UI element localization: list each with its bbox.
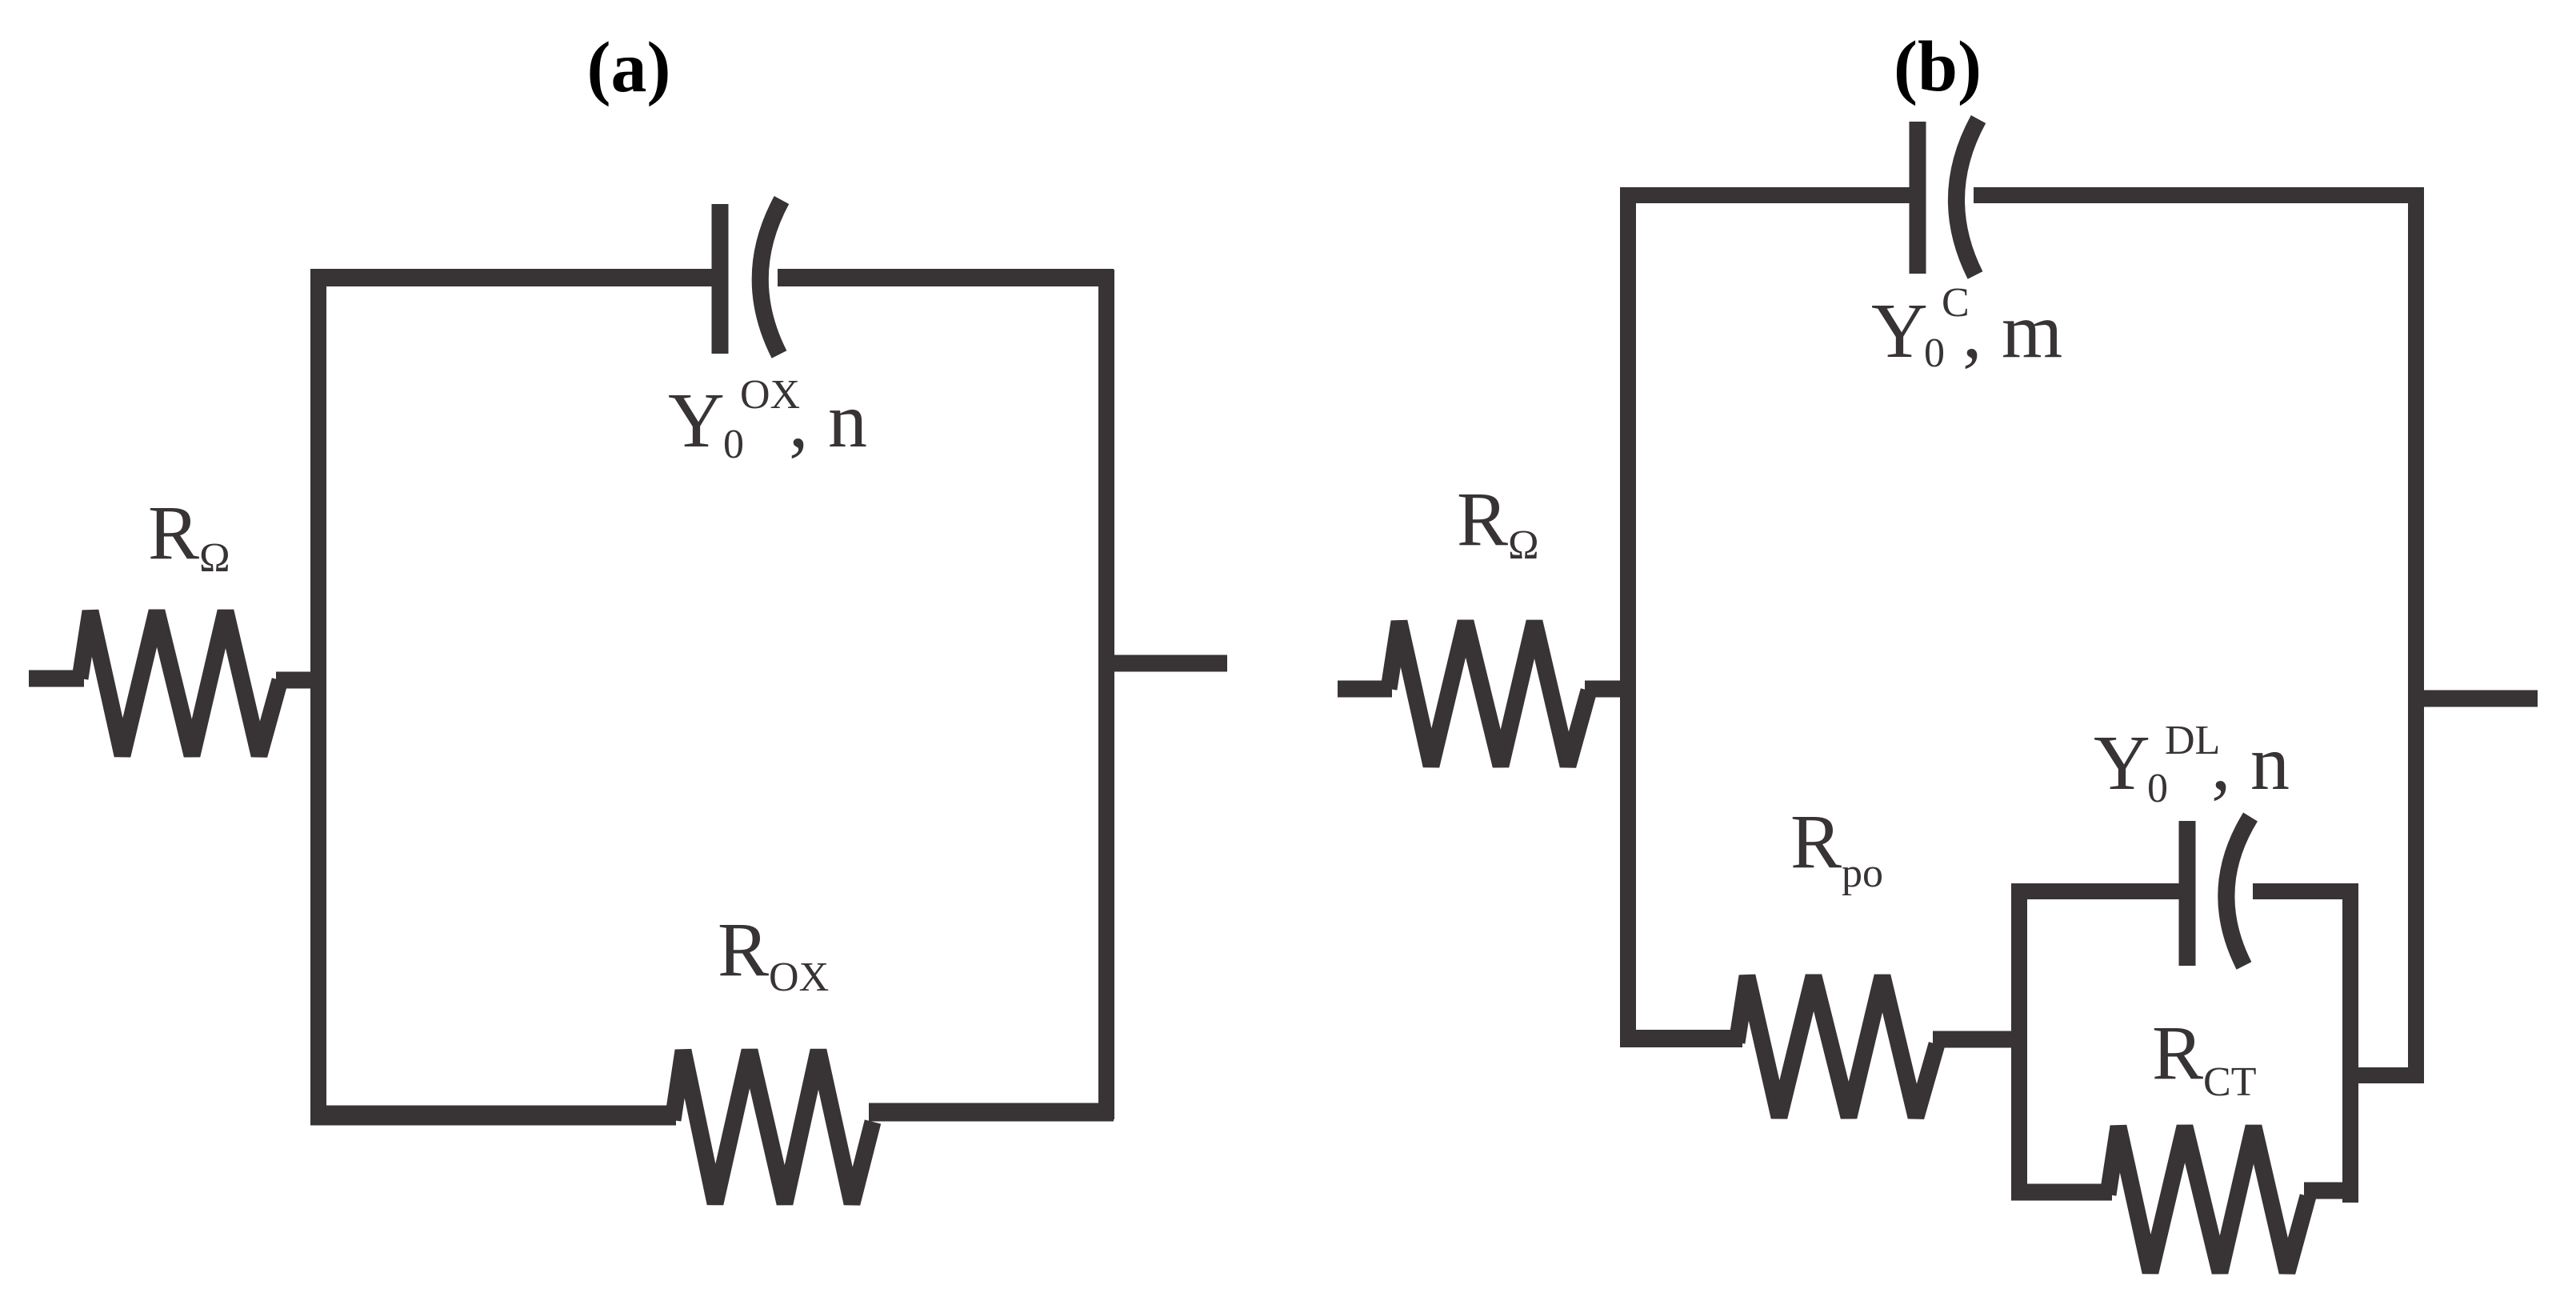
wire: top wire left segment (b) <box>1620 187 1910 203</box>
svg-text:, n: , n <box>789 378 867 464</box>
wire: sub-loop bottom wire left segment <box>2011 1184 2112 1201</box>
wire: sub-loop right rail <box>2342 884 2358 1203</box>
wire: input lead of circuit (b) <box>1338 681 1392 698</box>
wire: bottom wire of loop (b) <box>1620 1030 1742 1047</box>
wire: ROX to right rail (a) <box>869 1103 1114 1122</box>
resistor R&#937; (b) zigzag <box>1389 622 1589 766</box>
svg-text:0: 0 <box>723 422 744 467</box>
capacitor CPE Y0OX left plate <box>712 204 729 354</box>
wire: sub-loop top wire left segment <box>2011 883 2179 899</box>
svg-text:0: 0 <box>1924 330 1945 376</box>
wire: R&#937; (a) to left rail <box>276 672 318 689</box>
wire: left rail of loop (a) <box>310 270 326 1123</box>
wire: top wire left segment (a) <box>310 269 712 286</box>
capacitor CPE Y0C curved plate <box>1956 119 1978 275</box>
wire: Rpo to sub-loop (b) <box>1933 1031 2019 1048</box>
resistor ROX zigzag <box>673 1051 873 1203</box>
resistor Rpo zigzag <box>1737 976 1937 1117</box>
wire: RCT to sub-loop right rail <box>2304 1183 2358 1199</box>
svg-text:(b): (b) <box>1894 27 1982 106</box>
svg-text:Y: Y <box>1871 288 1928 374</box>
wire: left rail of loop (b) <box>1620 187 1636 1047</box>
wire: output stub of circuit (a) <box>1108 655 1227 672</box>
svg-text:0: 0 <box>2147 766 2168 811</box>
wire: sub-loop top wire right segment <box>2253 883 2358 899</box>
wire: right rail of loop (a) <box>1098 270 1114 1119</box>
resistor RCT zigzag <box>2108 1127 2308 1272</box>
wire: output stub of circuit (b) <box>2418 691 2538 707</box>
capacitor CPE Y0C left plate <box>1910 122 1926 274</box>
wire: connector sub-loop to right rail (b) <box>2350 1067 2424 1083</box>
svg-text:Y: Y <box>2094 720 2150 807</box>
resistor R&#937; (a) zigzag <box>80 611 280 755</box>
wire: right rail of loop (b) <box>2408 187 2424 1083</box>
svg-text:, n: , n <box>2211 720 2290 807</box>
wire: R&#937; (b) to left rail <box>1585 681 1628 698</box>
capacitor CPE Y0DL left plate <box>2179 821 2196 966</box>
wire: bottom wire left segment (a) <box>310 1106 676 1126</box>
svg-text:(a): (a) <box>587 28 671 107</box>
capacitor CPE Y0DL curved plate <box>2226 817 2250 966</box>
wire: input lead of circuit (a) <box>29 671 84 687</box>
wire: sub-loop left rail <box>2011 884 2027 1200</box>
capacitor CPE Y0OX curved plate <box>760 200 782 354</box>
wire: top wire right segment (a) <box>778 269 1114 286</box>
svg-text:Y: Y <box>668 378 725 464</box>
svg-text:, m: , m <box>1962 288 2062 374</box>
wire: top wire right segment (b) <box>1974 187 2424 203</box>
